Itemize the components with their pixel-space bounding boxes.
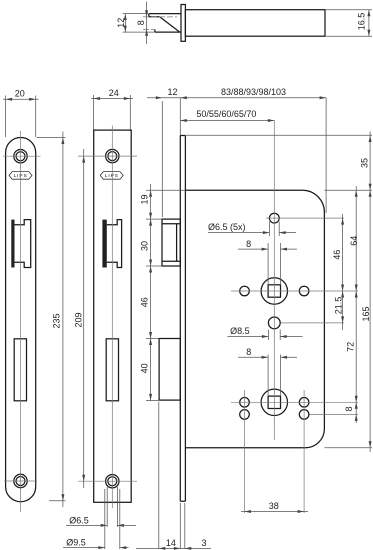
svg-text:20: 20	[15, 88, 25, 98]
svg-text:8: 8	[136, 20, 146, 25]
svg-text:46: 46	[140, 297, 150, 307]
svg-text:24: 24	[109, 88, 119, 98]
svg-text:35: 35	[360, 158, 370, 168]
svg-text:40: 40	[140, 363, 150, 373]
svg-text:14: 14	[166, 538, 176, 548]
svg-text:12: 12	[167, 87, 177, 97]
svg-text:165: 165	[361, 306, 371, 321]
svg-text:30: 30	[140, 241, 150, 251]
svg-text:235: 235	[52, 313, 62, 328]
svg-text:Ø6.5: Ø6.5	[69, 515, 89, 525]
svg-text:38: 38	[269, 501, 279, 511]
svg-text:3: 3	[201, 538, 206, 548]
svg-text:LIPS: LIPS	[105, 173, 119, 179]
svg-text:19: 19	[140, 194, 150, 204]
svg-text:50/55/60/65/70: 50/55/60/65/70	[196, 109, 256, 119]
svg-text:209: 209	[74, 312, 84, 327]
svg-text:8: 8	[344, 406, 354, 411]
svg-text:16.5: 16.5	[357, 13, 367, 31]
svg-text:72: 72	[345, 342, 355, 352]
svg-text:8: 8	[246, 347, 251, 357]
svg-text:8: 8	[246, 239, 251, 249]
svg-text:Ø9.5: Ø9.5	[66, 538, 86, 548]
svg-text:21.5: 21.5	[333, 297, 343, 315]
svg-text:12: 12	[116, 18, 126, 28]
svg-text:Ø8.5: Ø8.5	[230, 326, 250, 336]
svg-text:Ø6.5 (5x): Ø6.5 (5x)	[208, 222, 246, 232]
svg-text:83/88/93/98/103: 83/88/93/98/103	[221, 87, 286, 97]
svg-text:46: 46	[332, 250, 342, 260]
svg-text:64: 64	[349, 236, 359, 246]
